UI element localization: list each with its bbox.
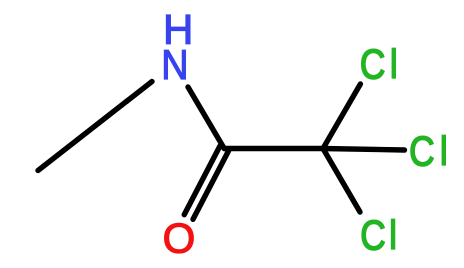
wire: bond C1 to C2 [224,146,323,151]
wire: bond C2 to Cl right [323,149,405,151]
wire: bond CH3 to N [38,82,152,171]
svg-text:C: C [360,41,385,88]
wire: double bond C1=O line A [193,151,229,220]
svg-text:l: l [389,40,398,87]
wire: bond C2 to Cl top [323,84,360,149]
wire: double bond C1=O line B [184,146,220,215]
svg-text:C: C [409,129,434,176]
svg-text:O: O [163,215,196,262]
svg-text:l: l [388,211,397,258]
svg-text:N: N [161,42,188,88]
svg-text:l: l [439,127,448,174]
wire: bond C2 to Cl bottom [323,149,360,213]
svg-text:C: C [360,213,385,260]
wire: bond N to C1 [188,87,224,149]
